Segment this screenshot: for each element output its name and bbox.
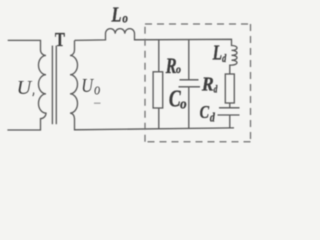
svg-text:o: o (94, 81, 100, 99)
svg-text:d: d (222, 53, 226, 66)
svg-text:U: U (17, 77, 33, 99)
svg-text:d: d (214, 83, 218, 94)
svg-text:T: T (55, 28, 65, 51)
svg-text:L: L (111, 4, 122, 27)
svg-text:o: o (176, 63, 181, 76)
svg-text:R: R (201, 73, 214, 95)
svg-text:C: C (200, 101, 210, 122)
svg-text:o: o (180, 95, 186, 112)
svg-text:d: d (210, 111, 215, 124)
svg-text:o: o (122, 10, 128, 25)
svg-text:R: R (165, 54, 177, 79)
svg-text:U: U (81, 74, 94, 96)
svg-text:L: L (212, 41, 222, 64)
